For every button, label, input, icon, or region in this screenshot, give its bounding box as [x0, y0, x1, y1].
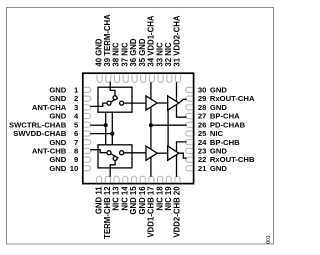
pad pin 8 [84, 148, 91, 153]
pad pin 29 [186, 96, 193, 101]
svg-text:4: 4 [74, 112, 79, 121]
pad pin 18 [158, 176, 163, 182]
svg-text:23: 23 [198, 147, 207, 156]
pad pin 5 [84, 122, 91, 127]
svg-text:26: 26 [198, 120, 207, 129]
IC package body U1 [83, 73, 194, 183]
svg-text:8: 8 [74, 147, 79, 156]
wire VDD2-CHB pin20 to amp B2 [176, 155, 178, 177]
svg-text:GND: GND [49, 164, 66, 173]
svg-text:40 GND: 40 GND [94, 38, 103, 67]
pad pin 33 [158, 75, 163, 83]
svg-text:GND: GND [49, 94, 66, 103]
pad pin 25 [186, 131, 193, 136]
svg-text:21: 21 [198, 164, 207, 173]
pad pin 9 [84, 157, 91, 162]
svg-text:GND: GND [49, 138, 66, 147]
pad pin 35 [141, 75, 146, 83]
svg-text:34 VDD1-CHA: 34 VDD1-CHA [147, 15, 156, 66]
svg-text:GND 11: GND 11 [94, 186, 103, 214]
pad pin 30 [186, 87, 193, 92]
wire amp A1 to amp A2 [157, 102, 168, 104]
svg-text:NIC 19: NIC 19 [164, 186, 173, 211]
svg-text:10: 10 [70, 164, 79, 173]
svg-text:BP-CHB: BP-CHB [210, 138, 240, 147]
wire switch A to switch B ctrl [105, 112, 107, 145]
switch A contact right [120, 101, 124, 105]
junction SWVDD [110, 132, 114, 136]
pad pin 24 [186, 140, 193, 145]
svg-text:9: 9 [74, 155, 78, 164]
svg-text:GND: GND [210, 164, 227, 173]
pad pin 34 [149, 75, 154, 83]
pad pin 28 [186, 105, 193, 110]
svg-text:29: 29 [198, 94, 207, 103]
pad pin 36 [132, 75, 137, 83]
wire PD junction to amp B1 [150, 125, 152, 149]
svg-text:35 GND: 35 GND [138, 38, 147, 67]
switch A blade [109, 98, 118, 103]
switch B contact bottom [113, 157, 117, 161]
svg-text:RxOUT-CHA: RxOUT-CHA [210, 94, 255, 103]
pad pin 40 [97, 75, 102, 83]
svg-text:PD-CHAB: PD-CHAB [210, 120, 246, 129]
svg-text:NIC 13: NIC 13 [112, 186, 121, 211]
svg-text:NIC 18: NIC 18 [155, 186, 164, 211]
switch B contact right [120, 151, 124, 155]
svg-text:22: 22 [198, 155, 207, 164]
pad pin 19 [166, 176, 171, 182]
pad pin 27 [186, 113, 193, 118]
pad pin 32 [167, 75, 172, 83]
svg-text:ANT-CHB: ANT-CHB [32, 147, 67, 156]
pad pin 16 [140, 176, 145, 182]
pad pin 14 [123, 176, 128, 182]
switch A contact top [113, 96, 117, 100]
pad pin 17 [149, 176, 154, 182]
svg-text:SWCTRL-CHAB: SWCTRL-CHAB [9, 120, 67, 129]
pad pin 6 [84, 131, 91, 136]
wire SWCTRL-CHAB pin5 [90, 124, 105, 126]
pad pin 7 [84, 140, 91, 145]
svg-text:27: 27 [198, 112, 207, 121]
amplifier A2 [168, 96, 179, 110]
pad pin 10 [84, 166, 91, 171]
svg-text:GND: GND [210, 147, 227, 156]
svg-text:ANT-CHA: ANT-CHA [32, 103, 67, 112]
wire VDD2-CHA pin31 to amp A2 [176, 82, 178, 101]
wire switch A to switch B vdd [111, 112, 113, 145]
switch box CHB [98, 145, 132, 168]
wire amp A2 to amp B2 [167, 110, 169, 146]
pad pin 31 [175, 75, 180, 83]
svg-text:TERM-CHB 12: TERM-CHB 12 [103, 186, 112, 239]
amplifier B2 [168, 146, 179, 160]
svg-text:BP-CHA: BP-CHA [210, 112, 240, 121]
svg-text:24: 24 [198, 138, 207, 147]
svg-text:28: 28 [198, 103, 207, 112]
svg-text:38 NIC: 38 NIC [112, 42, 121, 67]
svg-text:7: 7 [74, 138, 78, 147]
pad pin 20 [175, 176, 180, 182]
border frame [7, 8, 274, 245]
svg-text:GND 16: GND 16 [138, 186, 147, 215]
pad pin 21 [186, 166, 193, 171]
switch B blade [109, 153, 118, 159]
pad pin 22 [186, 157, 193, 162]
svg-text:33 NIC: 33 NIC [155, 42, 164, 67]
svg-text:31 VDD2-CHA: 31 VDD2-CHA [173, 15, 182, 66]
pad pin 4 [84, 113, 91, 118]
pad pin 12 [105, 176, 110, 182]
wire amp A2 to RxOUT-CHA pin29 [179, 99, 187, 103]
svg-text:RxOUT-CHB: RxOUT-CHB [210, 155, 255, 164]
wire amp B2 to RxOUT-CHB pin22 [179, 153, 187, 158]
wire BP-CHA pin27 to amp A2 [177, 105, 187, 118]
pad pin 38 [114, 75, 119, 83]
svg-text:001: 001 [266, 235, 272, 244]
switch B contact left [107, 151, 111, 155]
svg-text:GND: GND [210, 86, 227, 95]
amplifier B1 [146, 146, 157, 160]
svg-text:1: 1 [74, 86, 79, 95]
wire switch B to amp B1 [124, 152, 146, 154]
switch box CHA [98, 87, 132, 112]
wire amp B1 to VDD1-CHB pin17 [150, 157, 152, 176]
wire ANT-CHB pin8 to switch B [90, 150, 107, 153]
svg-text:5: 5 [74, 120, 79, 129]
switch A contact left [107, 101, 111, 105]
svg-text:6: 6 [74, 129, 78, 138]
wire SWVDD-CHAB pin6 [90, 133, 112, 135]
wire TERM-CHA pin39 to switch A [110, 82, 115, 96]
pad pin 26 [186, 122, 193, 127]
svg-text:GND 15: GND 15 [129, 186, 138, 215]
svg-text:VDD2-CHB 20: VDD2-CHB 20 [173, 186, 182, 238]
svg-text:VDD1-CHB 17: VDD1-CHB 17 [147, 186, 156, 237]
wire BP-CHB pin24 to amp B2 [177, 142, 187, 152]
wire ANT-CHA pin3 to switch A [90, 103, 107, 106]
svg-text:2: 2 [74, 94, 78, 103]
svg-text:GND: GND [210, 103, 227, 112]
svg-text:39 TERM-CHA: 39 TERM-CHA [103, 14, 112, 67]
svg-text:GND: GND [49, 155, 66, 164]
junction PD-CHAB [149, 123, 153, 127]
pad pin 15 [131, 176, 136, 182]
svg-text:NIC: NIC [210, 129, 224, 138]
svg-text:NIC 14: NIC 14 [120, 186, 129, 211]
svg-text:GND: GND [49, 112, 66, 121]
pad pin 3 [84, 105, 91, 110]
wire amp A1 to PD junction [150, 107, 152, 125]
wire TERM-CHB pin12 [110, 161, 115, 177]
svg-text:30: 30 [198, 86, 207, 95]
svg-text:36 GND: 36 GND [129, 38, 138, 67]
pad pin 39 [106, 75, 111, 83]
amplifier A1 [146, 96, 157, 110]
pad pin 13 [114, 176, 119, 182]
wire amp B1 to amp B2 [157, 152, 168, 154]
svg-text:37 NIC: 37 NIC [120, 42, 129, 67]
pad pin 37 [123, 75, 128, 83]
svg-text:GND: GND [49, 86, 66, 95]
wire switch A to amp A1 [124, 102, 146, 104]
svg-text:3: 3 [74, 103, 78, 112]
pad pin 1 [84, 87, 91, 92]
pad pin 2 [84, 96, 91, 101]
junction SWCTRL [104, 123, 108, 127]
svg-text:25: 25 [198, 129, 207, 138]
wire VDD1-CHA pin34 to amp A1 [150, 82, 152, 99]
svg-text:32 NIC: 32 NIC [164, 42, 173, 67]
pad pin 11 [97, 176, 102, 182]
pad pin 23 [186, 148, 193, 153]
wire PD-CHAB pin26 [151, 124, 187, 126]
svg-text:SWVDD-CHAB: SWVDD-CHAB [13, 129, 67, 138]
